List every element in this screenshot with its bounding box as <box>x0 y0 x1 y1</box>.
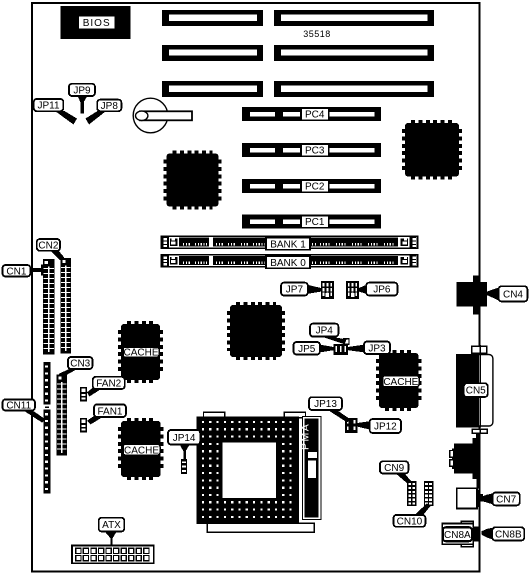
label ATX <box>99 518 125 532</box>
connector CN5 (D-sub) <box>456 345 493 434</box>
connector CN1 (floppy) <box>43 259 55 355</box>
label JP14 <box>168 430 200 445</box>
svg-text:JP4: JP4 <box>316 326 334 337</box>
label JP5 <box>294 342 321 355</box>
cache chip 3 label <box>123 444 160 456</box>
jumper block JP7 <box>321 281 334 299</box>
svg-text:PC4: PC4 <box>305 110 325 121</box>
pointer tail CN8B <box>482 528 493 540</box>
cache chip 2 label <box>383 376 419 388</box>
label JP9 <box>69 84 95 97</box>
cache chip 2 <box>378 352 420 409</box>
label JP6 <box>366 283 397 296</box>
svg-text:ATX: ATX <box>102 520 121 531</box>
JP14 header <box>181 459 187 474</box>
label FAN2 <box>93 377 125 390</box>
pointer tail JP9 <box>78 96 88 114</box>
chip U2 (keyboard controller) <box>404 122 460 178</box>
FAN1 header <box>80 418 87 433</box>
jumper block JP3/JP4/JP5 <box>334 344 349 355</box>
svg-text:CN9: CN9 <box>384 463 404 474</box>
svg-text:JP5: JP5 <box>298 344 316 355</box>
svg-text:JP13: JP13 <box>314 399 337 410</box>
pointer tail JP3 <box>348 345 364 353</box>
pointer tail CN4 <box>487 288 499 301</box>
PCI slot PC2 <box>242 179 381 193</box>
svg-text:JP8: JP8 <box>101 101 119 112</box>
ISA slot row 3 left segment <box>162 81 263 97</box>
label CN11 <box>3 399 36 411</box>
pointer tail CN2 <box>50 251 64 261</box>
pointer tail JP8 <box>86 111 107 125</box>
connector CN11 <box>44 362 51 494</box>
svg-text:CN5: CN5 <box>466 386 486 397</box>
pointer tail ATX <box>105 531 118 546</box>
svg-text:CN8B: CN8B <box>495 530 522 541</box>
pointer tail JP12 <box>357 421 370 429</box>
svg-text:CN10: CN10 <box>397 516 423 527</box>
svg-text:FAN1: FAN1 <box>97 406 122 417</box>
label CN2 <box>37 239 60 252</box>
connector CN2 (IDE) <box>61 258 72 354</box>
svg-text:FAN2: FAN2 <box>96 379 121 390</box>
AMP retention bracket <box>299 417 321 520</box>
ATX power connector <box>72 546 154 564</box>
header CN10 <box>424 481 434 506</box>
svg-text:PC2: PC2 <box>305 182 325 193</box>
label JP12 <box>370 419 401 433</box>
label CN9 <box>380 461 409 474</box>
ISA slot row 2 right segment <box>274 45 434 61</box>
svg-text:JP9: JP9 <box>73 86 91 97</box>
svg-text:PC3: PC3 <box>305 146 325 157</box>
svg-text:CN2: CN2 <box>38 241 58 252</box>
svg-text:CN11: CN11 <box>6 401 31 412</box>
label JP8 <box>97 100 121 112</box>
label CN8A <box>443 527 472 541</box>
svg-text:JP7: JP7 <box>286 285 304 296</box>
label CN4 <box>499 286 528 301</box>
connector CN4 <box>457 275 487 314</box>
connector CN8 stack <box>442 521 480 546</box>
JP4 pin box <box>344 339 350 344</box>
label JP13 <box>309 397 342 410</box>
ISA slot row 1 right segment <box>274 10 434 26</box>
pointer tail CN9 <box>396 473 412 484</box>
pointer tail CN1 <box>30 265 43 276</box>
svg-text:JP12: JP12 <box>374 422 397 433</box>
pointer tail CN10 <box>415 503 431 515</box>
label JP7 <box>281 283 308 296</box>
svg-text:JP3: JP3 <box>368 343 386 354</box>
svg-text:CACHE: CACHE <box>383 377 418 388</box>
pointer tail JP4 <box>321 336 347 344</box>
svg-text:JP11: JP11 <box>38 101 60 112</box>
jumper block JP12/JP13 <box>345 418 357 433</box>
svg-text:CN8A: CN8A <box>444 530 471 541</box>
keyboard connector (DIN) <box>450 433 480 488</box>
svg-text:BIOS: BIOS <box>83 18 111 29</box>
label CN3 <box>68 357 93 370</box>
pointer tail JP11 <box>55 111 77 125</box>
jumper block JP6 <box>346 281 359 299</box>
svg-text:BANK 0: BANK 0 <box>270 258 306 269</box>
ISA slot row 2 left segment <box>162 45 263 61</box>
chip U1 (flash/IO controller) <box>166 153 220 208</box>
svg-text:CN3: CN3 <box>70 359 90 370</box>
label JP3 <box>364 342 390 355</box>
svg-text:JP6: JP6 <box>373 285 391 296</box>
PCI slot PC1 <box>242 215 381 229</box>
cache chip 3 <box>120 420 162 478</box>
cache chip 1 <box>120 323 161 381</box>
pointer tail CN3 <box>59 369 78 378</box>
pointer tail JP6 <box>359 285 367 294</box>
cache chip 1 label <box>123 347 159 359</box>
pointer tail FAN1 <box>87 415 103 425</box>
label JP11 <box>34 99 64 112</box>
svg-text:CN4: CN4 <box>503 289 523 300</box>
connector CN3 (IDE) <box>57 375 68 456</box>
pointer tail JP13 <box>328 410 352 423</box>
PCI slot PC4 <box>242 107 381 121</box>
label CN1 <box>3 265 31 277</box>
battery <box>133 98 192 133</box>
pointer tail JP14 <box>180 444 190 459</box>
SIMM socket BANK 1 <box>162 236 418 250</box>
PCI slot PC3 <box>242 143 381 157</box>
svg-text:PC1: PC1 <box>305 217 325 228</box>
CPU socket (PGA) <box>197 412 315 532</box>
svg-text:35518: 35518 <box>303 29 331 39</box>
svg-text:CACHE: CACHE <box>124 445 159 456</box>
ISA slot row 3 right segment <box>274 81 434 97</box>
label CN7 <box>493 492 520 505</box>
svg-text:JP14: JP14 <box>173 433 196 444</box>
pointer tail CN11 <box>23 410 46 422</box>
svg-text:CN7: CN7 <box>496 495 516 506</box>
pointer tail CN7 <box>481 493 493 504</box>
connector CN7 <box>457 488 483 508</box>
label FAN1 <box>94 404 126 417</box>
pointer tail JP7 <box>308 285 321 294</box>
svg-text:CN1: CN1 <box>6 266 26 277</box>
BIOS chip <box>61 6 131 39</box>
svg-text:CACHE: CACHE <box>123 348 158 359</box>
label JP4 <box>310 324 338 337</box>
pointer tail JP5 <box>320 345 334 353</box>
label CN5 <box>464 383 488 397</box>
label CN10 <box>394 515 426 528</box>
pointer tail FAN2 <box>87 387 102 397</box>
svg-text:PMA: PMA <box>299 423 311 450</box>
svg-text:BANK 1: BANK 1 <box>270 239 306 250</box>
chip U3 (chipset) <box>229 304 283 358</box>
SIMM socket BANK 0 <box>162 255 418 269</box>
FAN2 header <box>80 387 87 402</box>
label CN8B <box>492 527 524 540</box>
ISA slot row 1 left segment <box>162 10 263 26</box>
header CN9 <box>407 481 417 506</box>
